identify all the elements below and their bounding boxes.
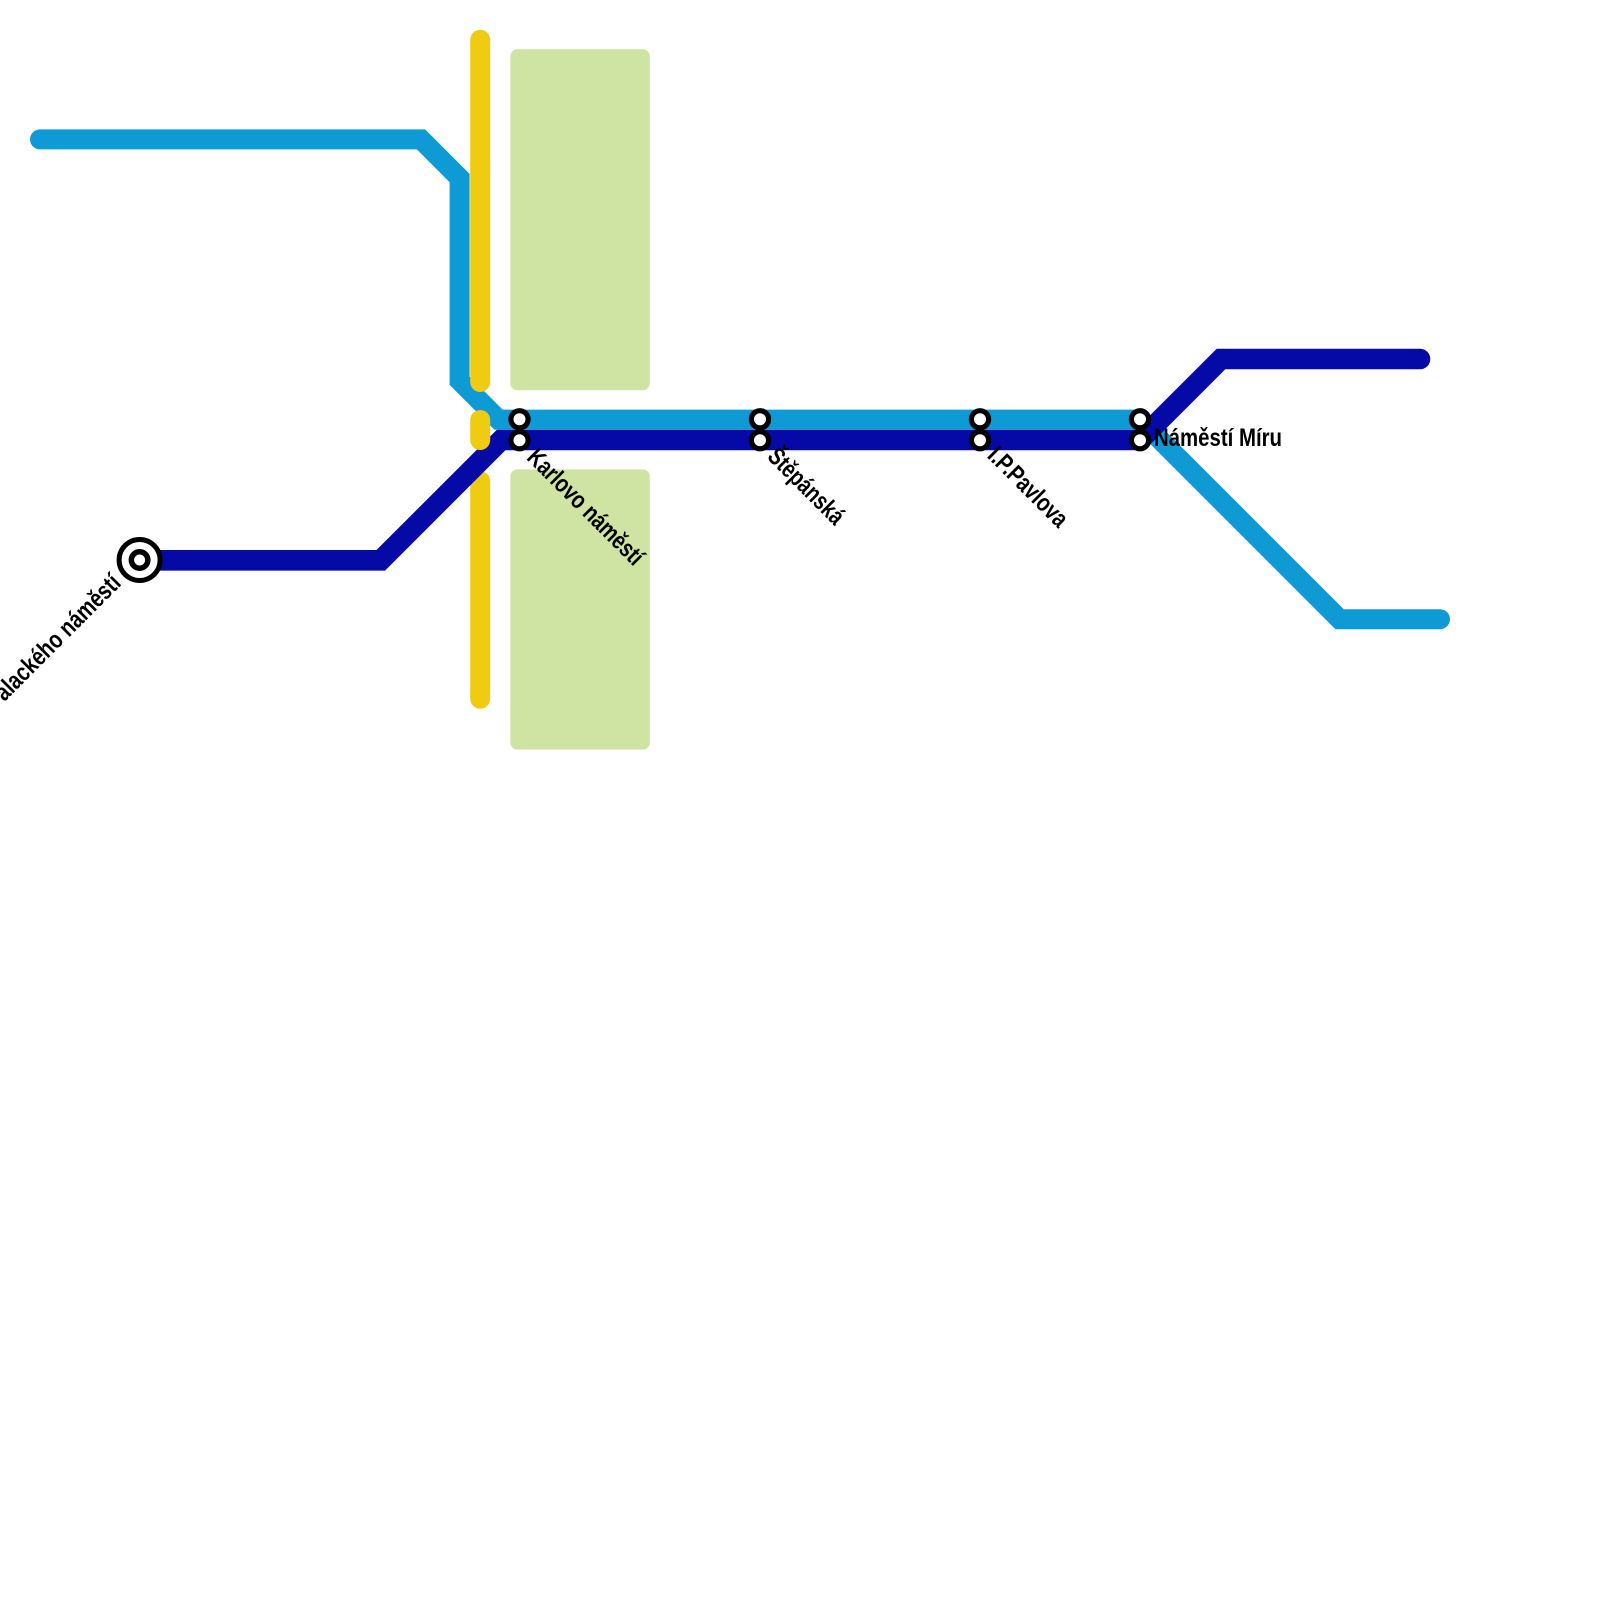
station Palackeho namesti (terminus bullseye)	[119, 540, 160, 581]
light blue line (azure route west-east)	[40, 139, 1440, 619]
yellow line segment south	[470, 481, 490, 699]
park lower (Karlovo namesti south)	[510, 469, 650, 749]
navy line (dark blue route)	[140, 359, 1420, 560]
station Karlovo namesti (interchange dots)	[511, 411, 528, 449]
yellow line segment north	[470, 40, 490, 382]
station Namesti Miru (interchange dots)	[1131, 411, 1148, 449]
yellow middle segment	[470, 420, 490, 440]
station Stepanska (interchange dots)	[751, 411, 768, 449]
station I.P.Pavlova (interchange dots)	[971, 411, 988, 449]
park upper (Karlovo namesti north)	[510, 49, 650, 390]
svg-text:Náměstí Míru: Náměstí Míru	[1154, 424, 1282, 452]
